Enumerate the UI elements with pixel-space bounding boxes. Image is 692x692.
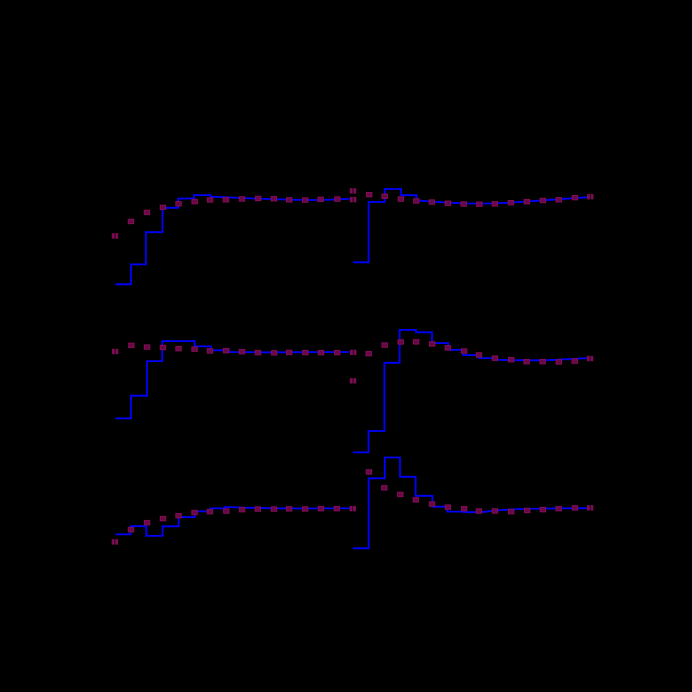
panel 3 (middle-left) boundary split square marker 2 (right half) [354, 350, 357, 355]
panel 4 (middle-right) true-hazard square marker 6 [445, 346, 451, 351]
panel 2 (top-right) true-hazard square marker 11 [524, 199, 530, 204]
panel 4 (middle-right) true-hazard square marker 10 [508, 357, 514, 362]
panel 1 (top-left) true-hazard square marker 8 [239, 197, 245, 202]
panel 5 (bottom-left) boundary split square marker 1 (right half) [115, 539, 118, 544]
panel 6 (bottom-right) true-hazard square marker 6 [445, 505, 451, 510]
panel 5 (bottom-left) true-hazard square marker 4 [176, 513, 182, 518]
panel 2 (top-right) true-hazard square marker 2 [382, 194, 388, 199]
panel 5 (bottom-left) boundary split square marker 2 (right half) [353, 506, 356, 511]
panel 1 (top-left) true-hazard square marker 14 [335, 197, 341, 202]
panel 1 (top-left) boundary split square marker 2 (left half) [350, 197, 353, 202]
panel 5 (bottom-left) true-hazard square marker 5 [192, 510, 198, 515]
panel 3 (middle-left) true-hazard square marker 13 [318, 350, 324, 355]
panel 1 (top-left) true-hazard square marker 4 [176, 202, 182, 207]
panel 2 (top-right) estimated hazard step line [353, 189, 588, 262]
panel 1 (top-left) true-hazard square marker 5 [192, 199, 198, 204]
panel 4 (middle-right) true-hazard square marker 12 [540, 359, 546, 364]
panel 1 (top-left) estimated hazard step line [115, 195, 349, 284]
panel 5 (bottom-left) true-hazard square marker 11 [286, 507, 292, 512]
panel 2 (top-right) true-hazard square marker 6 [445, 201, 451, 206]
panel 6 (bottom-right) true-hazard square marker 5 [429, 502, 435, 507]
panel 3 (middle-left) true-hazard square marker 3 [160, 345, 166, 350]
panel 5 (bottom-left) true-hazard square marker 10 [271, 507, 277, 512]
panel 4 (middle-right) true-hazard square marker 11 [524, 359, 530, 364]
panel 6 (bottom-right) true-hazard square marker 10 [508, 509, 514, 514]
panel 1 (top-left) true-hazard square marker 1 [128, 219, 134, 224]
panel 4 (middle-right) true-hazard square marker 5 [429, 342, 435, 347]
panel 5 (bottom-left) boundary split square marker 1 (left half) [112, 539, 115, 544]
panel 2 (top-right) true-hazard square marker 14 [572, 195, 578, 200]
panel 4 (middle-right) boundary split square marker 2 (right half) [590, 356, 593, 361]
panel 1 (top-left) true-hazard square marker 11 [286, 198, 292, 203]
panel 2 (top-right) true-hazard square marker 13 [556, 198, 562, 203]
panel 3 (middle-left) true-hazard square marker 10 [271, 351, 277, 356]
panel 4 (middle-right) true-hazard square marker 9 [492, 356, 498, 361]
panel 3 (middle-left) estimated hazard step line [115, 341, 349, 418]
panel 3 (middle-left) true-hazard square marker 11 [286, 350, 292, 355]
panel 5 (bottom-left) true-hazard square marker 2 [144, 520, 150, 525]
panel 2 (top-right) true-hazard square marker 12 [540, 198, 546, 203]
panel 5 (bottom-left) true-hazard square marker 13 [318, 506, 324, 511]
panel 5 (bottom-left) true-hazard square marker 7 [224, 509, 230, 514]
panel 1 (top-left) true-hazard square marker 2 [144, 210, 150, 215]
panel 1 (top-left) boundary split square marker 1 (left half) [112, 233, 115, 238]
panel 6 (bottom-right) true-hazard square marker 9 [492, 509, 498, 514]
panel 1 (top-left) true-hazard square marker 9 [255, 196, 261, 201]
panel 1 (top-left) true-hazard square marker 7 [223, 198, 229, 203]
panel 6 (bottom-right) true-hazard square marker 7 [461, 506, 467, 511]
panel 6 (bottom-right) true-hazard square marker 8 [476, 509, 482, 514]
panel 6 (bottom-right) true-hazard square marker 14 [572, 506, 578, 511]
panel 5 (bottom-left) estimated hazard step line [115, 507, 350, 536]
panel 5 (bottom-left) boundary split square marker 2 (left half) [350, 506, 353, 511]
panel 4 (middle-right) true-hazard square marker 2 [382, 343, 388, 348]
panel 1 (top-left) true-hazard square marker 10 [271, 197, 277, 202]
panel 6 (bottom-right) true-hazard square marker 13 [556, 506, 562, 511]
panel 4 (middle-right) true-hazard square marker 1 [366, 351, 372, 356]
panel 3 (middle-left) true-hazard square marker 14 [334, 350, 340, 355]
panel 5 (bottom-left) true-hazard square marker 12 [302, 507, 308, 512]
panel 5 (bottom-left) true-hazard square marker 9 [255, 507, 261, 512]
panel 2 (top-right) boundary split square marker 2 (right half) [591, 194, 594, 199]
panel 4 (middle-right) true-hazard square marker 13 [556, 360, 562, 365]
panel 5 (bottom-left) true-hazard square marker 8 [239, 507, 245, 512]
panel 1 (top-left) true-hazard square marker 3 [160, 205, 166, 210]
panel 3 (middle-left) true-hazard square marker 9 [255, 350, 261, 355]
panel 3 (middle-left) true-hazard square marker 1 [129, 343, 135, 348]
panel 6 (bottom-right) estimated hazard step line [353, 458, 588, 549]
panel 5 (bottom-left) true-hazard square marker 14 [334, 506, 340, 511]
panel 6 (bottom-right) boundary split square marker 1 (right half) [591, 505, 594, 510]
panel 4 (middle-right) true-hazard square marker 14 [572, 359, 578, 364]
panel 2 (top-right) true-hazard square marker 7 [461, 202, 467, 207]
panel 4 (middle-right) boundary split square marker 1 (right half) [353, 378, 356, 383]
panel 5 (bottom-left) true-hazard square marker 3 [160, 516, 166, 521]
panel 6 (bottom-right) true-hazard square marker 1 [366, 470, 372, 475]
panel 3 (middle-left) true-hazard square marker 6 [207, 349, 213, 354]
panel 2 (top-right) true-hazard square marker 5 [429, 200, 435, 205]
panel 2 (top-right) true-hazard square marker 9 [492, 202, 498, 207]
panel 1 (top-left) true-hazard square marker 6 [207, 198, 213, 203]
panel 6 (bottom-right) true-hazard square marker 2 [382, 486, 388, 491]
panel 1 (top-left) boundary split square marker 2 (right half) [353, 197, 356, 202]
panel 1 (top-left) boundary split square marker 1 (right half) [115, 233, 118, 238]
panel 2 (top-right) boundary split square marker 1 (right half) [353, 188, 356, 193]
panel 3 (middle-left) true-hazard square marker 4 [176, 346, 182, 351]
panel 3 (middle-left) true-hazard square marker 8 [239, 349, 245, 354]
panel 4 (middle-right) true-hazard square marker 3 [398, 340, 404, 345]
panel 2 (top-right) true-hazard square marker 4 [414, 199, 420, 204]
panel 2 (top-right) true-hazard square marker 8 [477, 202, 483, 207]
panel 4 (middle-right) true-hazard square marker 8 [476, 353, 482, 358]
panel 2 (top-right) boundary split square marker 1 (left half) [350, 188, 353, 193]
panel 2 (top-right) true-hazard square marker 3 [398, 197, 404, 202]
panel 3 (middle-left) true-hazard square marker 2 [144, 345, 150, 350]
panel 4 (middle-right) true-hazard square marker 4 [413, 340, 419, 345]
panel 3 (middle-left) true-hazard square marker 5 [192, 347, 198, 352]
panel 4 (middle-right) boundary split square marker 2 (left half) [587, 356, 590, 361]
panel 2 (top-right) true-hazard square marker 10 [508, 200, 514, 205]
panel 5 (bottom-left) true-hazard square marker 6 [207, 509, 213, 514]
panel 3 (middle-left) true-hazard square marker 12 [303, 350, 309, 355]
panel 3 (middle-left) boundary split square marker 2 (left half) [350, 350, 353, 355]
panel 4 (middle-right) true-hazard square marker 7 [461, 349, 467, 354]
panel 6 (bottom-right) true-hazard square marker 4 [413, 498, 419, 503]
panel 3 (middle-left) true-hazard square marker 7 [223, 348, 229, 353]
panel 1 (top-left) true-hazard square marker 13 [318, 197, 324, 202]
panel 4 (middle-right) estimated hazard step line [353, 330, 587, 453]
panel 4 (middle-right) boundary split square marker 1 (left half) [350, 378, 353, 383]
panel 6 (bottom-right) true-hazard square marker 12 [540, 507, 546, 512]
panel 6 (bottom-right) boundary split square marker 1 (left half) [587, 505, 590, 510]
panel 6 (bottom-right) true-hazard square marker 3 [398, 492, 404, 497]
panel 1 (top-left) true-hazard square marker 12 [302, 198, 308, 203]
panel 2 (top-right) true-hazard square marker 1 [366, 192, 372, 197]
panel 6 (bottom-right) true-hazard square marker 11 [524, 508, 530, 513]
panel 5 (bottom-left) true-hazard square marker 1 [128, 528, 134, 533]
panel 2 (top-right) boundary split square marker 2 (left half) [587, 194, 590, 199]
panel 3 (middle-left) boundary split square marker 1 (right half) [116, 349, 119, 354]
panel 3 (middle-left) boundary split square marker 1 (left half) [112, 349, 115, 354]
